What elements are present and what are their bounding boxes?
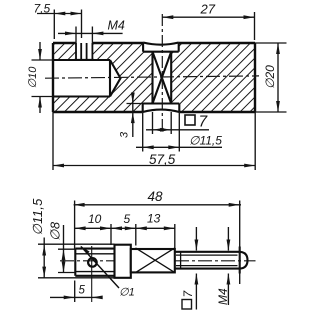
dim □7 top (146, 129, 209, 131)
dim Ø10 (32, 60, 54, 97)
Ø8 (58, 249, 75, 272)
svg-text:57,5: 57,5 (149, 152, 176, 167)
Ø11,5 (38, 244, 115, 278)
Ø8 (62, 249, 66, 260)
square hole counterbore bottom (143, 104, 180, 113)
svg-text:5: 5 (79, 285, 86, 297)
10 (75, 226, 86, 230)
arrowheads top view (38, 12, 280, 168)
axis centerline (60, 260, 256, 262)
svg-text:27: 27 (200, 2, 216, 17)
48 (74, 204, 241, 206)
svg-text:∅20: ∅20 (263, 65, 277, 89)
dim 5 bottom (50, 296, 100, 298)
centerline horizontal top view (45, 76, 259, 78)
tapped hole M4 thread lines (74, 43, 94, 60)
3 arrows (131, 93, 135, 104)
part body Ø20×57.5, full section with hatching (53, 43, 255, 112)
dim Ø11,5 top (136, 146, 222, 148)
thread portion M4 (175, 252, 239, 269)
27 arrows (162, 15, 173, 19)
Ø11,5 (42, 245, 46, 256)
svg-text:∅8: ∅8 (48, 221, 63, 241)
left face (52, 43, 54, 112)
48 (74, 203, 85, 207)
svg-text:10: 10 (88, 212, 102, 226)
5 bottom (64, 296, 75, 300)
svg-text:3: 3 (119, 131, 131, 138)
□7 (195, 240, 199, 251)
hole Ø10 white cavity (53, 60, 121, 97)
flange Ø11.5 (115, 245, 131, 278)
leader line Ø1 (81, 247, 119, 289)
10 / 5 / 13 row (75, 227, 175, 229)
left cylinder Ø8 (75, 249, 114, 276)
57,5 arrows (53, 164, 64, 168)
square hole □7 walls and X (153, 52, 172, 104)
□7 arrows verticals (195, 227, 197, 310)
7,5 arrows (54, 12, 65, 16)
bottom face (53, 111, 255, 113)
arrowheads bottom view (42, 203, 239, 299)
square section box (131, 249, 175, 272)
square section symbol □ of label □7, bottom view (182, 300, 192, 310)
svg-text:13: 13 (147, 212, 161, 226)
leader arrowhead Ø1 (80, 246, 89, 255)
cross hole center extension line (91, 246, 93, 302)
dim Ø20 (255, 43, 287, 112)
dim 57,5 (53, 165, 255, 167)
M4 arrows (65, 32, 76, 36)
13 (136, 226, 147, 230)
dimension text labels, bottom view (30, 189, 230, 305)
tapped hole M4 white cavity (76, 42, 92, 60)
Ø20 arrows (276, 43, 280, 54)
svg-text:48: 48 (148, 189, 164, 204)
svg-text:M4: M4 (216, 288, 230, 305)
5 (111, 226, 122, 230)
dims bottom view (38, 201, 241, 310)
svg-text:M4: M4 (108, 19, 125, 33)
svg-text:7,5: 7,5 (34, 2, 51, 16)
body outline (53, 43, 255, 112)
dim 3 (127, 103, 144, 105)
square hole Ø11.5 counterbore top (143, 43, 179, 52)
square hole column white cavity (143, 42, 179, 52)
svg-text:5: 5 (124, 212, 131, 226)
Ø10 arrows (38, 49, 42, 60)
dome tip (240, 252, 248, 269)
svg-text:∅1: ∅1 (119, 287, 135, 299)
dimension text labels, top view (27, 2, 277, 168)
square section symbol □ of label □7, top view (185, 115, 195, 125)
right face (254, 43, 256, 112)
svg-text:∅10: ∅10 (27, 66, 39, 89)
centerline vertical square hole (161, 14, 163, 131)
cross hole Ø1 circle (88, 258, 97, 267)
Ø11,5 arrows (143, 145, 154, 149)
svg-text:∅11,5: ∅11,5 (189, 134, 222, 148)
M4 (227, 240, 231, 251)
dim 27 (162, 16, 254, 18)
svg-text:7: 7 (181, 290, 195, 298)
top face (53, 42, 255, 44)
M4 arrows verticals (227, 227, 229, 305)
dim 7,5 (37, 13, 82, 15)
dim M4 (58, 32, 123, 34)
svg-text:7: 7 (199, 114, 209, 131)
hole Ø10 outline (53, 60, 121, 97)
□7 arrows (153, 128, 164, 132)
svg-text:∅11,5: ∅11,5 (30, 198, 45, 236)
